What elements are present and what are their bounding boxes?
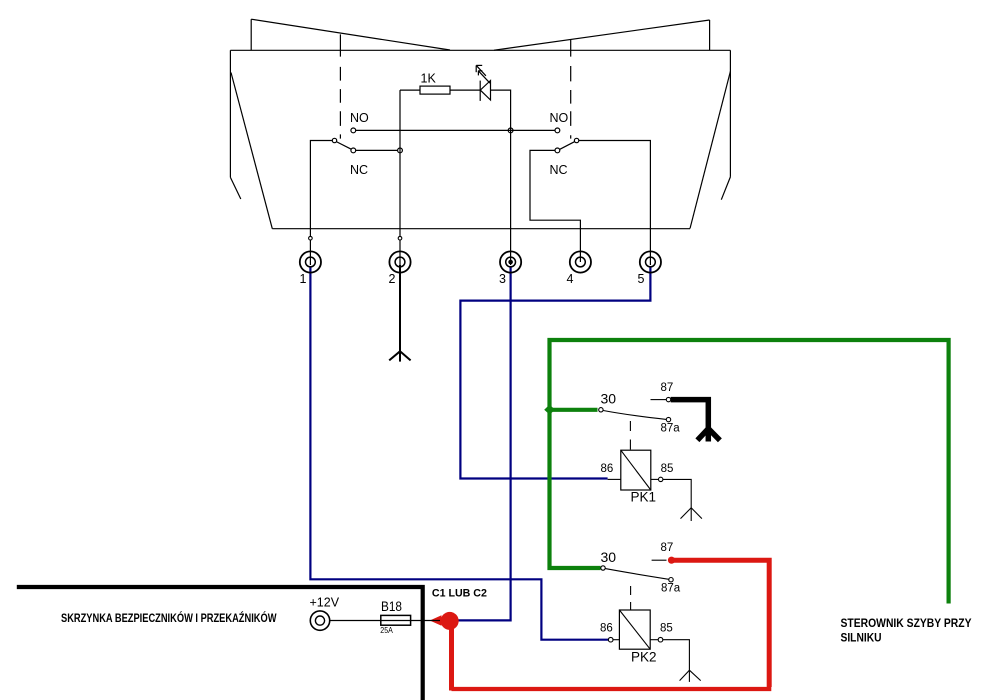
wire navy terminal 3 to node C1 bbox=[459, 266, 511, 620]
pin 85 lead PK1 bbox=[651, 478, 659, 480]
terminal 2 bbox=[389, 251, 410, 272]
terminal 1 bbox=[300, 251, 321, 272]
terminal 5 bbox=[640, 251, 661, 272]
relay PK1 lever bbox=[603, 411, 666, 420]
pin 30 contact PK1 bbox=[599, 408, 603, 412]
svg-text:SKRZYNKA BEZPIECZNIKÓW I PRZEK: SKRZYNKA BEZPIECZNIKÓW I PRZEKAŹNIKÓW bbox=[61, 610, 277, 625]
pin 87a contact PK2 bbox=[669, 578, 673, 582]
rocker switch S1 body outline bbox=[230, 50, 730, 228]
svg-text:30: 30 bbox=[601, 391, 617, 407]
wire NC left to junction bbox=[356, 149, 398, 151]
svg-text:NC: NC bbox=[550, 163, 568, 177]
svg-text:2: 2 bbox=[389, 272, 396, 286]
svg-text:NO: NO bbox=[350, 111, 369, 125]
switch SW-right pivot contact bbox=[574, 138, 578, 142]
relay PK2 bbox=[600, 542, 701, 682]
svg-text:87: 87 bbox=[661, 382, 674, 394]
pin 86 lead PK2 bbox=[613, 639, 619, 641]
svg-text:PK1: PK1 bbox=[631, 490, 657, 505]
wire red PK2 pin 87 to relay corner bbox=[673, 560, 769, 687]
junction diamond green node bbox=[544, 405, 555, 415]
ground symbol thin at PK1 85 bbox=[681, 508, 702, 521]
svg-text:85: 85 bbox=[660, 622, 673, 634]
wire navy terminal 5 to PK1 pin 86 bbox=[460, 266, 650, 479]
switch SW-right NO contact bbox=[555, 128, 560, 133]
pin 87 red dot PK2 bbox=[668, 557, 675, 564]
switch SW-left NO contact bbox=[351, 128, 356, 133]
pin 87 stub PK2 bbox=[652, 559, 667, 561]
wire green PK2 pin 30 to STEROWNIK bbox=[550, 340, 949, 604]
svg-text:3: 3 bbox=[499, 272, 506, 286]
fuse B18 body bbox=[381, 615, 411, 625]
svg-text:30: 30 bbox=[601, 549, 617, 565]
wire vertical terminal 2 branch bbox=[399, 90, 401, 265]
wire PK2 85 to ground bbox=[663, 640, 690, 671]
wire NC right routing to terminal 4 bbox=[530, 150, 580, 262]
svg-text:86: 86 bbox=[601, 463, 614, 475]
relay PK1 coil diagonal bbox=[621, 450, 651, 490]
switch SW-right NC contact bbox=[555, 148, 560, 153]
LED D1 bbox=[476, 65, 490, 101]
svg-text:1K: 1K bbox=[421, 72, 437, 86]
terminal +12V inner bbox=[315, 616, 324, 625]
wire red bottom run bbox=[452, 687, 772, 691]
wire resistor to LED bbox=[450, 89, 480, 91]
actuator dashed line right bbox=[570, 40, 572, 139]
wire pivot left to terminal 1 lead bbox=[310, 141, 332, 266]
pin 30 contact PK2 bbox=[601, 566, 605, 570]
wire red riser to node C1 bbox=[449, 621, 454, 691]
svg-text:87a: 87a bbox=[661, 582, 681, 594]
resistor R1 bbox=[420, 86, 450, 94]
svg-text:STEROWNIK SZYBY PRZY: STEROWNIK SZYBY PRZY bbox=[841, 616, 972, 630]
switch SW-right lever bbox=[560, 142, 575, 150]
pin 87a contact PK1 bbox=[666, 417, 670, 421]
svg-text:4: 4 bbox=[567, 272, 574, 286]
wire LED to terminal 3 branch bbox=[491, 90, 511, 265]
node C1 red dot bbox=[441, 612, 459, 630]
svg-text:1: 1 bbox=[300, 272, 307, 286]
svg-text:B18: B18 bbox=[381, 599, 402, 614]
wire PK1 85 to ground bbox=[663, 479, 691, 507]
svg-text:NC: NC bbox=[350, 163, 368, 177]
actuator dashed line left bbox=[339, 34, 341, 138]
wire thick black 87 PK1 to ground bbox=[671, 400, 709, 429]
wire resistor left lead bbox=[400, 89, 420, 91]
pin 85 contact PK1 bbox=[659, 477, 663, 481]
ground symbol thin at PK2 85 bbox=[680, 670, 701, 682]
svg-text:25A: 25A bbox=[380, 625, 393, 635]
svg-text:C1 LUB C2: C1 LUB C2 bbox=[432, 587, 487, 599]
wire green stub PK1 pin 30 bbox=[550, 408, 598, 412]
relay PK2 coil diagonal bbox=[619, 610, 650, 649]
svg-text:+12V: +12V bbox=[310, 596, 340, 610]
wire navy terminal 1 to PK2 pin 86 bbox=[310, 266, 608, 640]
svg-text:PK2: PK2 bbox=[631, 650, 657, 665]
svg-text:5: 5 bbox=[638, 272, 645, 286]
svg-text:87: 87 bbox=[661, 542, 674, 554]
relay PK2 coil box bbox=[619, 610, 650, 649]
svg-text:NO: NO bbox=[550, 111, 569, 125]
relay PK1 coil box bbox=[621, 450, 651, 490]
relay PK1 actuator dashed link bbox=[629, 421, 631, 450]
junction node NC-T2 bbox=[398, 148, 403, 153]
pin 87 contact PK1 bbox=[666, 397, 670, 401]
switch SW-left pivot contact bbox=[332, 138, 336, 142]
wire pivot right to terminal 5 lead bbox=[579, 141, 651, 266]
rocker button top bbox=[251, 19, 709, 50]
switch SW-left lever bbox=[336, 142, 351, 150]
svg-text:86: 86 bbox=[600, 622, 613, 634]
wire +12V to fuse bbox=[330, 620, 440, 622]
svg-text:87a: 87a bbox=[661, 423, 681, 435]
terminal 1 entry hole bbox=[309, 236, 313, 240]
node C1 red arrow bbox=[430, 615, 442, 625]
relay PK2 actuator dashed link bbox=[630, 586, 632, 610]
junction node NO-T3 bbox=[508, 128, 513, 133]
ground symbol thick at PK1 87 bbox=[697, 429, 720, 442]
pin 86 contact PK2 bbox=[608, 637, 613, 642]
pin 85 contact PK2 bbox=[658, 637, 663, 642]
fuse box frame bbox=[17, 587, 423, 700]
relay PK2 lever bbox=[605, 569, 669, 580]
ground symbol under terminal 2 bbox=[389, 351, 410, 361]
wire NO bus line bbox=[356, 129, 556, 131]
switch SW-left NC contact bbox=[351, 148, 356, 153]
wire terminal 2 to ground bbox=[399, 265, 401, 351]
pin 87 stub PK1 bbox=[651, 399, 667, 401]
terminal +12V outer bbox=[310, 611, 329, 630]
relay PK1 bbox=[599, 382, 720, 521]
terminal 3 bbox=[500, 251, 521, 272]
pin 86 lead PK1 bbox=[608, 478, 621, 480]
svg-text:SILNIKU: SILNIKU bbox=[841, 631, 882, 645]
terminal 2 entry hole bbox=[398, 236, 402, 240]
svg-text:85: 85 bbox=[661, 463, 674, 475]
pin 85 lead PK2 bbox=[650, 639, 658, 641]
terminal 4 bbox=[570, 251, 591, 272]
terminal 3 center dot bbox=[508, 260, 513, 265]
